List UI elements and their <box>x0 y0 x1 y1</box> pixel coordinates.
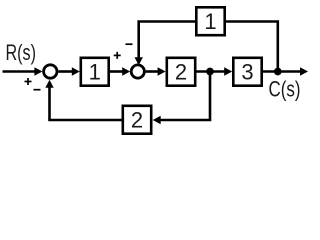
wire: bottom feedback from H2 left and up into S1 <box>45 80 121 120</box>
svg-text:1: 1 <box>89 59 101 84</box>
svg-text:1: 1 <box>204 9 216 34</box>
wire S2 to block G2 <box>146 67 166 75</box>
wire S1 to block G1 <box>58 67 79 75</box>
wire: input arrow into summing junction S1 <box>3 67 43 75</box>
wire: top feedback from junction after G3 up and across <box>139 22 278 72</box>
junction node after G2 <box>206 68 214 76</box>
wire G3 to output C(s) <box>263 67 308 75</box>
svg-text:R(s): R(s) <box>6 40 37 65</box>
block G1 <box>81 58 109 86</box>
plus sign at S2 <box>114 52 121 59</box>
wire G2 to block G3 <box>197 67 233 75</box>
summing junction S2 <box>131 65 144 78</box>
junction node after G3 <box>274 68 282 76</box>
svg-text:C(s): C(s) <box>269 77 301 102</box>
wire: top feedback arrowhead into S2 <box>135 57 143 65</box>
minus sign at S2 <box>126 43 133 45</box>
summing junction S1 <box>44 65 57 78</box>
block G2 <box>167 58 195 86</box>
svg-text:2: 2 <box>131 107 143 132</box>
wire: bottom feedback from junction after G2 down and left into H2 <box>153 72 210 125</box>
block H1 (top feedback) <box>196 7 224 35</box>
plus sign at S1 <box>25 78 32 85</box>
svg-text:2: 2 <box>175 59 187 84</box>
block H2 (bottom feedback) <box>123 106 151 134</box>
wire G1 to summing junction S2 <box>110 67 130 75</box>
svg-text:3: 3 <box>241 59 253 84</box>
block G3 <box>233 58 261 86</box>
minus sign at S1 <box>34 89 41 91</box>
